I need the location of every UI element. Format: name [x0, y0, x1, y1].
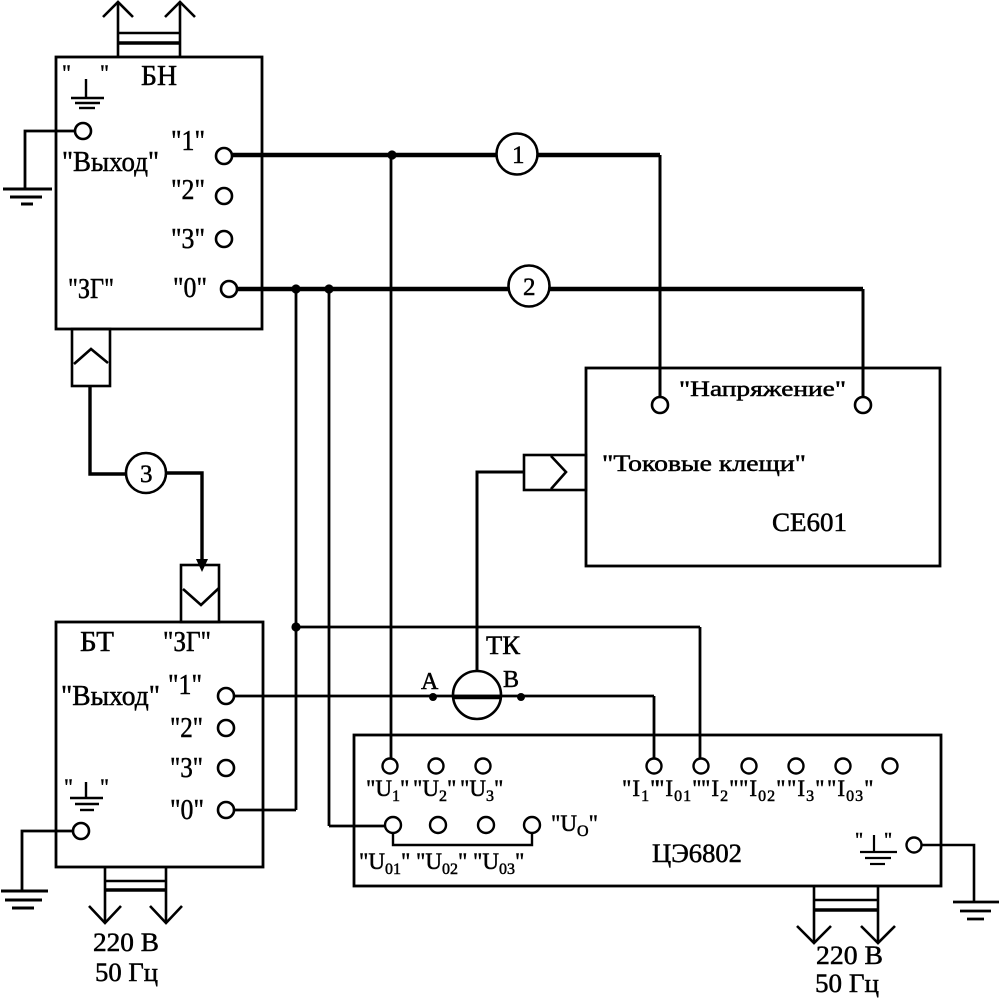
terminal U01: [385, 817, 401, 833]
external ground left (BT): [1, 891, 48, 908]
node B: [517, 693, 525, 701]
svg-text:"3": "3": [170, 752, 203, 784]
svg-text:": ": [100, 774, 109, 799]
BT terminal 2: [218, 720, 234, 736]
svg-text:БТ: БТ: [80, 626, 114, 658]
svg-text:"U01": "U01": [359, 849, 410, 878]
wire 1 vertical to CE601: [659, 155, 662, 396]
svg-text:"0": "0": [170, 794, 204, 826]
wire BT1 to TK to I1: [234, 695, 654, 698]
terminal U2: [429, 759, 444, 774]
BT terminal 1: [218, 688, 234, 704]
svg-text:ТК: ТК: [486, 631, 521, 660]
block BN box: [56, 57, 262, 329]
svg-text:"Токовые клещи": "Токовые клещи": [602, 451, 806, 476]
cable marker circle 2: [509, 266, 550, 307]
svg-text:"1": "1": [171, 125, 205, 157]
wire 3 segment a: [90, 386, 127, 474]
CE601 voltage terminal left: [652, 397, 668, 413]
wire BT terminal to ground: [22, 831, 73, 891]
svg-text:": ": [884, 829, 892, 851]
BN mains cable: [103, 2, 195, 57]
net0 vertical 1: [295, 289, 298, 810]
svg-text:В: В: [503, 667, 519, 693]
cable marker circle 3: [126, 453, 166, 493]
svg-text:": ": [855, 829, 863, 851]
CE6802 ground terminal: [907, 838, 922, 853]
svg-text:"U03": "U03": [473, 849, 524, 878]
svg-text:"UО": "UО": [551, 811, 598, 840]
CE6802 mains cable: [797, 886, 895, 943]
CE6802 box: [354, 735, 941, 886]
TK clamp circle: [453, 671, 501, 719]
svg-text:"U2": "U2": [413, 776, 456, 805]
external ground left (BN): [3, 189, 52, 204]
net0 horizontal to I01: [296, 626, 700, 629]
BN Vyhod terminal: [75, 123, 91, 139]
wire 1 horizontal: [232, 153, 660, 157]
TK inner conductor: [452, 695, 502, 699]
svg-text:1: 1: [512, 142, 525, 169]
svg-text:"ЗГ": "ЗГ": [68, 273, 114, 305]
jumper U01 to U0: [393, 833, 532, 845]
svg-text:"U1": "U1": [366, 776, 409, 805]
svg-text:220 В: 220 В: [93, 928, 159, 957]
net0 vertical 2: [328, 289, 331, 826]
BT terminal 3: [218, 760, 234, 776]
block BT box: [56, 622, 263, 867]
svg-text:": ": [62, 60, 71, 85]
BN bottom connector: [72, 329, 110, 386]
svg-text:50 Гц: 50 Гц: [815, 969, 879, 998]
svg-text:А: А: [421, 669, 439, 695]
svg-text:БН: БН: [141, 60, 177, 92]
svg-text:": ": [100, 60, 109, 85]
wire BN terminal to ground: [25, 131, 75, 188]
terminal I3: [836, 759, 851, 774]
terminal I1: [647, 759, 662, 774]
terminal U1: [383, 759, 398, 774]
junction A on wire 2: [291, 284, 300, 293]
svg-text:"U02": "U02": [416, 849, 467, 878]
cable marker circle 1: [497, 134, 538, 175]
svg-text:"3": "3": [171, 223, 205, 255]
external ground right: [953, 902, 999, 919]
svg-text:"Выход": "Выход": [61, 680, 160, 712]
CE6802 internal ground symbol: [860, 835, 897, 864]
svg-text:": ": [64, 774, 73, 799]
BT terminal 0: [218, 802, 234, 818]
svg-text:50 Гц: 50 Гц: [95, 958, 158, 987]
terminal U0: [524, 817, 540, 833]
BN terminal 0: [221, 281, 237, 297]
svg-text:3: 3: [140, 461, 153, 488]
BT internal ground symbol: [70, 782, 103, 810]
svg-text:"1": "1": [168, 669, 202, 701]
terminal U03: [478, 817, 494, 833]
wire CE6802 to ground: [922, 845, 974, 901]
wire net1 branch down to U1: [390, 155, 393, 759]
terminal I2: [742, 759, 757, 774]
terminal U02: [430, 817, 446, 833]
wire clamp to TK: [477, 472, 524, 671]
terminal U3: [476, 759, 491, 774]
BN internal ground symbol: [71, 79, 104, 108]
net0 horizontal to U01: [329, 825, 385, 828]
svg-text:ЦЭ6802: ЦЭ6802: [652, 839, 742, 868]
BN terminal 1: [216, 148, 232, 164]
net0 link to BT 0: [234, 809, 296, 812]
wire 2 horizontal: [237, 287, 863, 291]
svg-text:"Выход": "Выход": [62, 146, 159, 178]
wire 3 arrowhead: [196, 559, 208, 572]
BT mains cable: [89, 867, 182, 923]
svg-text:"ЗГ": "ЗГ": [163, 626, 211, 658]
BN terminal 3: [216, 231, 232, 247]
terminal I02: [789, 759, 804, 774]
svg-text:2: 2: [523, 274, 536, 301]
CE601 box: [586, 368, 940, 566]
svg-text:"U3": "U3": [460, 776, 503, 805]
junction net0: [291, 622, 300, 631]
wire 2 vertical to CE601: [862, 289, 865, 396]
terminal I03: [883, 759, 898, 774]
BT top connector: [181, 565, 219, 622]
CE601 voltage terminal right: [855, 397, 871, 413]
terminal I01: [694, 759, 709, 774]
BN terminal 2: [216, 188, 232, 204]
junction on wire 1: [387, 150, 396, 159]
BT ground terminal: [73, 823, 89, 839]
CE601 clamp connector: [524, 455, 586, 490]
svg-text:"Напряжение": "Напряжение": [679, 376, 846, 401]
svg-text:220 В: 220 В: [816, 941, 883, 970]
svg-text:"2": "2": [170, 712, 203, 744]
wire 3 segment b: [166, 473, 202, 566]
junction B on wire 2: [324, 284, 333, 293]
svg-text:"0": "0": [173, 272, 207, 304]
node A: [429, 693, 437, 701]
svg-text:СЕ601: СЕ601: [772, 508, 847, 537]
net0 vertical to I01: [699, 627, 702, 759]
svg-text:"2": "2": [171, 174, 205, 206]
